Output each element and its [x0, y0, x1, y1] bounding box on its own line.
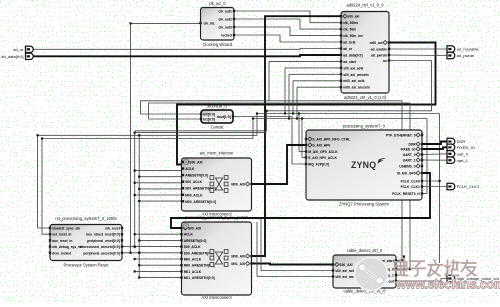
svg-text:M00_ARESETN[0:0]: M00_ARESETN[0:0] — [185, 200, 216, 204]
svg-text:axi_mem_intercon: axi_mem_intercon — [200, 151, 234, 156]
svg-text:s00_axi_aclk: s00_axi_aclk — [335, 269, 355, 273]
svg-text:S00_AXI: S00_AXI — [188, 227, 201, 231]
svg-text:ad_start: ad_start — [343, 60, 357, 64]
svg-text:Processor System Reset: Processor System Reset — [63, 263, 109, 268]
svg-text:ARESETN[0:0]: ARESETN[0:0] — [185, 174, 208, 178]
svg-text:FCLK_CLK1: FCLK_CLK1 — [457, 184, 480, 189]
svg-text:clk_50m_inv: clk_50m_inv — [343, 34, 363, 38]
svg-text:M00_AXI: M00_AXI — [231, 255, 245, 259]
svg-text:s00_axi_aclk: s00_axi_aclk — [343, 66, 363, 70]
svg-text:Clocking Wizard: Clocking Wizard — [202, 42, 232, 47]
svg-text:au: au — [383, 59, 387, 63]
svg-text:clk_out3: clk_out3 — [218, 26, 232, 30]
svg-text:processing_system7_0_axi_perip: processing_system7_0_axi_periph — [185, 215, 249, 220]
svg-text:FIXED_IO: FIXED_IO — [401, 148, 416, 152]
svg-text:S00_AXI: S00_AXI — [189, 161, 202, 165]
svg-text:S_AXI_HP0: S_AXI_HP0 — [312, 144, 330, 148]
svg-text:mb_reset: mb_reset — [105, 227, 121, 231]
svg-text:slowest_sync_clk: slowest_sync_clk — [52, 227, 80, 231]
svg-text:ad_data[9:0]: ad_data[9:0] — [1, 54, 23, 59]
svg-text:FIXED_IO: FIXED_IO — [457, 145, 475, 150]
svg-text:AXI Interconnect: AXI Interconnect — [201, 295, 232, 300]
svg-text:ad9224_ctrl_v1_0_0: ad9224_ctrl_v1_0_0 — [346, 3, 384, 8]
svg-text:clk_50m: clk_50m — [343, 28, 356, 32]
svg-text:S_AXI_HP0_FIFO_CTRL: S_AXI_HP0_FIFO_CTRL — [312, 138, 350, 142]
svg-text:ad9224_ctrl_v1_0 (1.0): ad9224_ctrl_v1_0 (1.0) — [344, 95, 387, 100]
svg-text:ad_rxenable: ad_rxenable — [457, 47, 480, 52]
svg-text:In1[0:0]: In1[0:0] — [203, 118, 215, 122]
svg-text:s00_axi_aresetn: s00_axi_aresetn — [343, 73, 368, 77]
svg-text:ad_pwrdn: ad_pwrdn — [371, 54, 387, 58]
svg-text:USBIND_0: USBIND_0 — [399, 165, 415, 169]
svg-text:m00_axi_aclk: m00_axi_aclk — [343, 79, 364, 83]
svg-text:M00_ACLK: M00_ACLK — [185, 193, 203, 197]
svg-text:IRQ_F2P[0:0]: IRQ_F2P[0:0] — [308, 163, 329, 167]
svg-text:clk_out1: clk_out1 — [218, 10, 232, 14]
svg-text:aux_reset_in: aux_reset_in — [52, 239, 72, 243]
svg-text:locked: locked — [221, 34, 231, 38]
svg-text:ad_pwrdn: ad_pwrdn — [457, 53, 475, 58]
svg-text:S00_AXI: S00_AXI — [339, 263, 352, 267]
svg-text:UART_1: UART_1 — [403, 159, 416, 163]
svg-text:ad_bclk: ad_bclk — [343, 41, 355, 45]
svg-text:uart_1: uart_1 — [457, 158, 469, 163]
svg-text:s00_axi: s00_axi — [347, 15, 359, 19]
svg-text:DDR: DDR — [457, 139, 466, 144]
svg-text:M01_AXI: M01_AXI — [231, 262, 245, 266]
svg-text:clk_out2: clk_out2 — [218, 18, 232, 22]
svg-text:www.elecfans.com: www.elecfans.com — [395, 278, 500, 292]
svg-text:S_AXI_HP0_ACLK: S_AXI_HP0_ACLK — [308, 156, 337, 160]
svg-text:ad_data[9:0]: ad_data[9:0] — [343, 53, 362, 57]
svg-text:M_AXI_GP0: M_AXI_GP0 — [397, 172, 416, 176]
svg-text:dout[1:0]: dout[1:0] — [217, 115, 231, 119]
svg-text:clk_200m: clk_200m — [343, 21, 358, 25]
svg-text:m00_axi_aresetn: m00_axi_aresetn — [343, 86, 370, 90]
svg-text:ad_enable: ad_enable — [371, 48, 387, 52]
svg-text:dcm_locked: dcm_locked — [52, 251, 71, 255]
svg-text:xlconcat_0: xlconcat_0 — [207, 104, 227, 109]
svg-text:processing_system7_0: processing_system7_0 — [343, 124, 386, 129]
svg-text:PTP_ETHERNET_0: PTP_ETHERNET_0 — [386, 134, 416, 138]
svg-text:ext_reset_in: ext_reset_in — [52, 233, 71, 237]
svg-text:interconnect_aresetn[0:0]: interconnect_aresetn[0:0] — [79, 245, 119, 249]
svg-text:uart_0: uart_0 — [457, 151, 469, 156]
svg-text:peripheral_aresetn[0:0]: peripheral_aresetn[0:0] — [83, 251, 119, 255]
svg-text:FCLK_CLK1: FCLK_CLK1 — [401, 185, 420, 189]
svg-text:rst_processing_system7_0_100M: rst_processing_system7_0_100M — [55, 216, 117, 221]
svg-text:M_AXI_GP0_ACLK: M_AXI_GP0_ACLK — [308, 150, 338, 154]
svg-text:clk_wz_0: clk_wz_0 — [209, 1, 227, 6]
svg-text:m00_axi: m00_axi — [370, 41, 383, 45]
svg-text:cable_detect_ctrl_0: cable_detect_ctrl_0 — [347, 248, 383, 253]
svg-text:In0[0:0]: In0[0:0] — [203, 113, 215, 117]
svg-text:M01_ARESETN[0:0]: M01_ARESETN[0:0] — [184, 276, 215, 280]
svg-text:peripheral_reset[0:0]: peripheral_reset[0:0] — [87, 239, 120, 243]
svg-text:ad_or: ad_or — [13, 47, 24, 52]
svg-text:ARESETN[0:0]: ARESETN[0:0] — [184, 239, 207, 243]
svg-text:UART_0: UART_0 — [403, 153, 416, 157]
svg-text:Concat: Concat — [211, 125, 225, 130]
svg-text:ZYNQ7 Processing System: ZYNQ7 Processing System — [339, 202, 389, 207]
svg-text:ACLK: ACLK — [185, 167, 195, 171]
svg-text:DDR: DDR — [408, 143, 416, 147]
svg-text:S00_ACLK: S00_ACLK — [184, 245, 201, 249]
svg-text:ACLK: ACLK — [184, 233, 194, 237]
svg-text:FCLK_RESET0_N: FCLK_RESET0_N — [392, 192, 420, 196]
svg-text:M00_ACLK: M00_ACLK — [184, 258, 202, 262]
svg-text:ad_or: ad_or — [343, 47, 353, 51]
svg-text:clk_in1: clk_in1 — [204, 22, 215, 26]
svg-text:S00_ARESETN[0:0]: S00_ARESETN[0:0] — [184, 251, 214, 255]
svg-text:bus_struct_reset[0:0]: bus_struct_reset[0:0] — [86, 233, 120, 237]
svg-text:FCLK_CLK0: FCLK_CLK0 — [401, 180, 420, 184]
svg-text:M00_AXI: M00_AXI — [231, 183, 245, 187]
svg-text:ZYNQ: ZYNQ — [351, 160, 376, 170]
svg-text:M01_ACLK: M01_ACLK — [184, 270, 202, 274]
svg-text:S00_ACLK: S00_ACLK — [185, 180, 202, 184]
